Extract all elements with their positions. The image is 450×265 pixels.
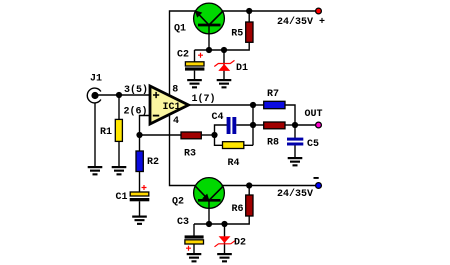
ground (D2): [217, 253, 232, 262]
terminal: -V: [316, 183, 322, 189]
node: input junction: [116, 92, 122, 98]
svg-text:R6: R6: [232, 204, 244, 215]
wire: J1 tip to non-inverting input: [97, 94, 150, 96]
wire: pin 8 to Q1 emitter: [170, 11, 197, 95]
node: OUT: [292, 122, 298, 128]
terminal: OUT: [316, 122, 322, 128]
node: R6 top: [246, 182, 252, 188]
node: Q1 base: [206, 47, 212, 53]
svg-text:D2: D2: [234, 238, 246, 249]
connector J1: [87, 74, 102, 103]
wire: R2 to C1: [139, 172, 141, 193]
wire: output down to R8/C4 level: [252, 105, 254, 145]
svg-text:OUT: OUT: [305, 109, 323, 120]
node: R5 top: [246, 8, 252, 14]
resistor R4: [215, 135, 254, 169]
svg-text:R7: R7: [267, 89, 279, 100]
ground (C2): [187, 79, 202, 88]
svg-text:C4: C4: [212, 112, 224, 123]
ground (C3): [187, 253, 202, 262]
svg-text:R2: R2: [147, 157, 159, 168]
svg-text:8: 8: [172, 85, 178, 96]
wire: to OUT terminal: [295, 124, 316, 126]
node: D2 top: [221, 221, 227, 227]
wire: feedback node to R3: [140, 134, 182, 136]
resistor R3: [181, 132, 215, 160]
ground (J1 sleeve): [88, 166, 103, 175]
ground (C5): [288, 157, 303, 166]
terminal: +V: [316, 8, 322, 14]
wire: negative bias node: [194, 223, 226, 225]
svg-text:R8: R8: [267, 137, 279, 148]
wire: R1 leads: [118, 95, 120, 120]
svg-text:24/35V +: 24/35V +: [277, 16, 325, 28]
wire: R2 top lead: [139, 135, 141, 151]
wire: C1 to ground: [139, 201, 141, 216]
svg-text:4: 4: [173, 116, 179, 127]
wire: op-amp output: [189, 104, 253, 106]
resistor R8: [253, 122, 295, 148]
node: inverting junction: [136, 132, 142, 138]
wire: J1 sleeve down to ground: [94, 103, 96, 167]
svg-text:Q1: Q1: [174, 24, 186, 35]
node: output / R7: [250, 102, 256, 108]
svg-text:R4: R4: [228, 158, 240, 169]
label: -V minus mark: [314, 177, 319, 179]
svg-text:J1: J1: [90, 74, 102, 85]
node A: R3/C4/R4: [211, 132, 217, 138]
svg-text:2(6): 2(6): [124, 106, 148, 118]
ground (R1): [112, 166, 127, 175]
resistor R1: [115, 119, 122, 141]
svg-text:C2: C2: [177, 50, 189, 61]
svg-text:D1: D1: [236, 63, 248, 74]
transistor Q2: [172, 178, 224, 224]
ground (C1): [132, 216, 147, 225]
svg-text:IC1: IC1: [163, 102, 181, 113]
wire: positive bias node: [195, 49, 227, 51]
node: D1 top: [221, 47, 227, 53]
capacitor C5: [287, 125, 319, 158]
ground (D1): [217, 79, 232, 88]
svg-text:R1: R1: [100, 127, 112, 138]
capacitor C1: [116, 185, 150, 203]
resistor R6: [225, 186, 254, 225]
capacitor C4: [212, 112, 254, 135]
svg-text:Q2: Q2: [172, 197, 184, 208]
wire: top rail: [222, 10, 319, 12]
svg-text:R5: R5: [231, 29, 243, 40]
wire: pin 4 to Q2 emitter: [170, 115, 197, 186]
svg-text:C5: C5: [307, 139, 319, 150]
resistor R2: [136, 151, 143, 172]
wire: inverting input stub: [140, 116, 151, 136]
capacitor C2: [177, 50, 204, 80]
diode D2 (zener): [215, 224, 247, 254]
svg-text:R3: R3: [184, 149, 196, 160]
svg-text:3(5): 3(5): [124, 84, 148, 96]
resistor R7: [253, 89, 295, 125]
op-amp IC1: [124, 84, 216, 127]
svg-text:1(7): 1(7): [192, 93, 216, 105]
resistor R5: [224, 11, 253, 50]
svg-text:C3: C3: [177, 217, 189, 228]
svg-text:24/35V: 24/35V: [277, 188, 313, 200]
node: Q2 base: [206, 221, 212, 227]
node: C4 right / R8 left: [250, 122, 256, 128]
transistor Q1: [174, 3, 224, 50]
capacitor C3: [177, 217, 204, 254]
wire: bottom rail: [222, 185, 319, 187]
svg-text:C1: C1: [116, 192, 128, 203]
diode D1 (zener): [214, 50, 248, 80]
